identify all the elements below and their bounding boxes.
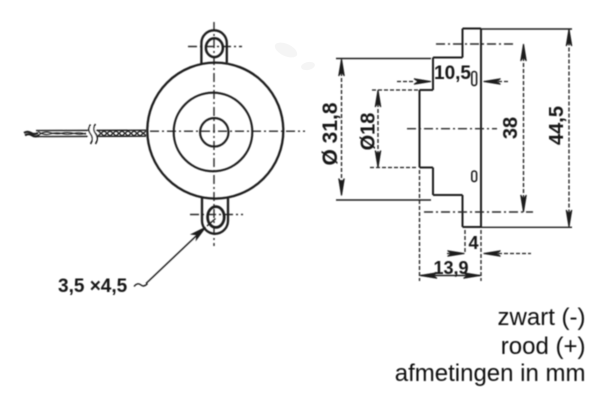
svg-text:afmetingen in mm: afmetingen in mm bbox=[395, 360, 586, 387]
svg-text:rood (+): rood (+) bbox=[501, 333, 586, 360]
svg-text:3,5 ×4,5: 3,5 ×4,5 bbox=[58, 276, 128, 297]
svg-text:10,5: 10,5 bbox=[434, 63, 471, 84]
svg-text:38: 38 bbox=[500, 117, 522, 139]
svg-text:44,5: 44,5 bbox=[546, 106, 568, 145]
svg-text:zwart (-): zwart (-) bbox=[498, 304, 586, 331]
svg-text:Ø18: Ø18 bbox=[358, 113, 380, 151]
svg-text:4: 4 bbox=[469, 233, 479, 253]
svg-text:Ø 31,8: Ø 31,8 bbox=[319, 102, 342, 165]
svg-text:13,9: 13,9 bbox=[434, 258, 469, 278]
